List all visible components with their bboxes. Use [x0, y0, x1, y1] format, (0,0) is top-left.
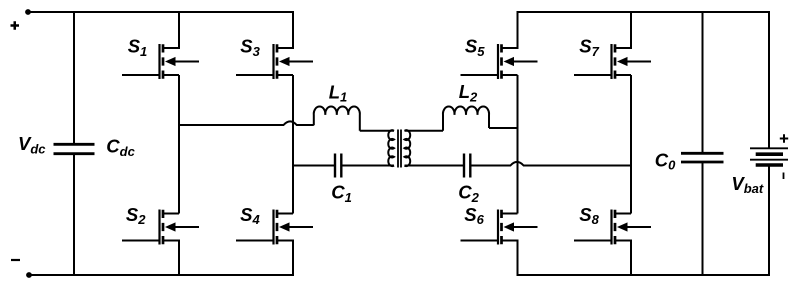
- label - (input negative): [11, 259, 20, 261]
- svg-text:S2: S2: [126, 204, 146, 227]
- wire: L2 to leg C tap: [489, 127, 518, 129]
- svg-text:C1: C1: [331, 182, 352, 205]
- transistor S3: [236, 11, 313, 79]
- wire: leg A tap with hop over leg B: [179, 121, 314, 125]
- capacitor C0: [681, 12, 724, 275]
- label - (battery negative): [783, 173, 785, 180]
- wire: transformer secondary bottom to C2: [405, 165, 465, 167]
- transistor S8: [574, 210, 651, 277]
- svg-text:L2: L2: [459, 81, 478, 104]
- svg-text:Vdc: Vdc: [18, 133, 46, 156]
- capacitor C2: [464, 154, 470, 178]
- transistor S4: [236, 210, 313, 277]
- wire: top rail left section: [28, 11, 294, 13]
- svg-text:C0: C0: [655, 149, 676, 172]
- transistor S7: [574, 11, 651, 79]
- wire: transformer secondary top to L2: [405, 130, 444, 132]
- transformer primary winding: [388, 130, 394, 166]
- transformer secondary winding: [405, 130, 411, 166]
- svg-text:Cdc: Cdc: [106, 136, 135, 159]
- inductor L2: [443, 107, 489, 131]
- wire: leg A mid (S1 source to S2 drain): [178, 75, 180, 214]
- transistor S5: [461, 11, 538, 79]
- inductor L1: [314, 107, 360, 131]
- label + (input positive): [11, 21, 20, 30]
- svg-text:S4: S4: [240, 204, 260, 227]
- capacitor C_dc: [54, 12, 95, 275]
- wire: L1 to transformer primary top: [360, 130, 394, 132]
- wire: bottom rail left section: [28, 274, 294, 276]
- transistor S6: [461, 210, 538, 277]
- wire: bottom rail right section: [517, 274, 770, 276]
- svg-text:L1: L1: [329, 81, 348, 104]
- svg-text:S7: S7: [579, 36, 599, 59]
- node: positive input terminal dot: [25, 9, 31, 15]
- node: negative input terminal dot: [26, 272, 32, 278]
- svg-text:S8: S8: [579, 204, 599, 227]
- svg-text:C2: C2: [458, 182, 479, 205]
- capacitor C1: [335, 154, 341, 178]
- wire: leg B mid (S3 source to S4 drain): [292, 75, 294, 214]
- label + (battery positive): [780, 134, 788, 142]
- svg-text:Vbat: Vbat: [731, 173, 764, 196]
- wire: C1 to transformer primary bottom: [341, 165, 394, 167]
- wire: leg C mid (S5 source to S6 drain): [517, 75, 519, 214]
- transistor S1: [122, 11, 199, 79]
- battery V_bat: [750, 11, 788, 276]
- svg-text:S6: S6: [464, 204, 484, 227]
- svg-text:S5: S5: [465, 36, 485, 59]
- wire: top rail right section: [517, 11, 770, 13]
- wire: leg B tap to C1: [293, 165, 335, 167]
- transistor S2: [122, 210, 199, 277]
- wire: C2 to leg D tap with hop over leg C: [470, 162, 631, 166]
- svg-text:S1: S1: [128, 36, 148, 59]
- svg-text:S3: S3: [240, 36, 260, 59]
- transformer core: [398, 130, 401, 168]
- wire: leg D mid (S7 source to S8 drain): [630, 75, 632, 214]
